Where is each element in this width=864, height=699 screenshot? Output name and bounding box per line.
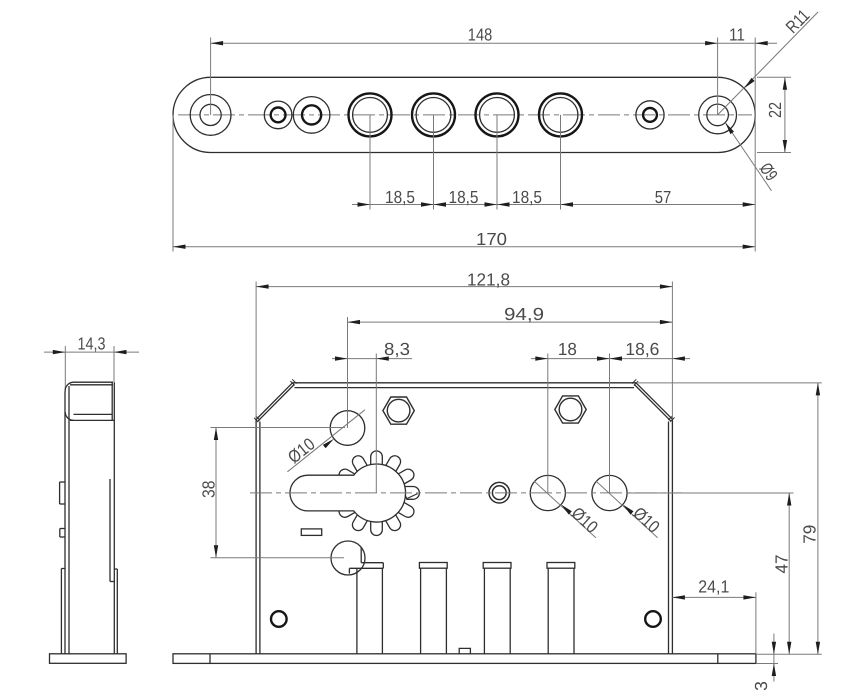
svg-text:18,5: 18,5 — [449, 187, 479, 207]
side view: flange bottom edge lower — [70, 419, 114, 421]
top view: plate outline (stadium 170x22) — [173, 77, 755, 152]
side view: left bump 2 bottom — [60, 536, 65, 538]
dim 22: dimension line — [784, 77, 786, 152]
top view: big hole 1 outer (thick) — [349, 93, 392, 136]
dim 121,8: right extension line — [671, 282, 673, 419]
side view: left tab top connector — [61, 568, 65, 570]
side view: base plate — [50, 654, 127, 664]
top view: big hole 3 inner — [480, 98, 515, 133]
front view: stud 4 cap — [547, 563, 575, 569]
front view: stud 1 cap right — [382, 563, 384, 569]
top view: big hole 4 inner — [543, 98, 578, 133]
dim 148: left arrow — [211, 41, 224, 45]
dim 18,6: right outside arrow — [672, 356, 685, 360]
front view: left chamfer outer — [256, 383, 292, 420]
front view: stud 3 cap — [483, 563, 511, 569]
dim 94,9: dimension line — [348, 321, 673, 323]
front view: horizontal center line — [250, 492, 682, 494]
dim 94,9: left arrow — [348, 320, 361, 324]
dim 18: left outside arrow — [535, 356, 548, 360]
dim 18,5: extension line — [433, 115, 435, 210]
dim 38: bottom extension line — [211, 557, 345, 559]
dim 3: top outside arrow — [772, 642, 776, 655]
dim 14,3: right extension line — [113, 346, 115, 382]
side view: flange bottom-left rounded corner — [65, 412, 73, 420]
dim 47: top arrow — [787, 493, 791, 506]
top view: small hole C inner (thick) — [643, 108, 657, 122]
dim 18,5 arrows at 433.5 right — [421, 202, 434, 206]
svg-text:57: 57 — [655, 187, 672, 207]
dim 24,1: right extension line — [755, 592, 757, 654]
dim 79: top extension line — [638, 382, 822, 384]
dim 38: bottom arrow — [214, 545, 218, 558]
side view: right edge — [113, 421, 115, 654]
side view: flange right edge inner — [111, 382, 113, 420]
top view: big hole 4 outer (thick) — [539, 93, 582, 136]
dim 38: top arrow — [214, 428, 218, 441]
dim 18,5 arrows at 433.5 left — [434, 202, 447, 206]
dim 18,5/57: dimension line — [352, 204, 755, 206]
dim 8,3: extension line (keyhole center) — [375, 354, 377, 493]
front view: right hole 1 Ø10 — [530, 475, 565, 510]
front view: small rectangle cutout — [301, 529, 321, 536]
dim 18: extension line left — [547, 354, 549, 493]
dim 79: bottom extension line — [756, 653, 822, 655]
dim 121,8: right arrow — [660, 284, 673, 288]
front view: stud 4 body left — [547, 568, 549, 654]
side view: flange bottom edge upper — [74, 413, 113, 415]
svg-text:79: 79 — [799, 525, 819, 544]
front view: left chamfer inner — [258, 385, 294, 422]
dim 57 right arrow — [743, 202, 756, 206]
dim 8,3: right outside arrow — [376, 356, 389, 360]
top view: big hole 2 outer (thick) — [412, 93, 455, 136]
dim 22: bottom extension line — [757, 152, 791, 154]
dim 8,3: left outside arrow — [335, 356, 348, 360]
dim 18,5: extension line — [369, 115, 371, 210]
dim 18,5: extension line — [496, 115, 498, 210]
dim 47: dimension line — [788, 493, 790, 654]
dim 170: left extension line — [172, 115, 174, 252]
front view: top edge inner — [295, 387, 635, 389]
dim 3: bottom outside arrow — [772, 664, 776, 677]
front view: small double circle outer — [489, 482, 510, 503]
front view: stud 2 body right — [445, 568, 447, 654]
dim 121,8: left extension line — [255, 282, 257, 420]
front view: mounting hole left — [271, 611, 287, 627]
svg-text:94,9: 94,9 — [504, 304, 544, 324]
dim 57 left arrow — [561, 202, 574, 206]
dim Ø9: arrow at hole edge — [725, 123, 734, 135]
top view: horizontal center line — [178, 114, 752, 116]
front view: bottom-left hole Ø10 — [331, 541, 365, 575]
side view: left inner edge — [68, 386, 70, 654]
front view: right chamfer bend tick top — [634, 381, 638, 385]
front view: hex nut left circle — [387, 399, 410, 422]
dim Ø10 right-2: leader line — [596, 481, 657, 538]
front view: base seam right — [717, 654, 719, 664]
front view: hex nut right outline — [555, 396, 586, 423]
front view: top edge outer — [293, 382, 637, 384]
svg-text:18,5: 18,5 — [512, 187, 542, 207]
svg-text:11: 11 — [729, 25, 745, 45]
svg-text:121,8: 121,8 — [467, 269, 510, 289]
dim 18/18,6: extension line middle — [609, 354, 611, 493]
front view: top-left hole Ø10 — [330, 411, 365, 446]
front view: right hole 2 Ø10 — [592, 475, 627, 510]
front view: left edge outer — [255, 420, 257, 654]
svg-text:24,1: 24,1 — [698, 576, 729, 596]
svg-text:47: 47 — [772, 555, 792, 574]
front view: small notch on base — [459, 648, 470, 653]
top view: big hole 1 inner — [353, 98, 388, 133]
dim 79: dimension line — [817, 383, 819, 654]
dim 18,5 arrows at 370 — [358, 202, 371, 206]
front view: left edge inner — [259, 422, 261, 654]
svg-text:170: 170 — [476, 229, 507, 249]
front view: stud 1 cap bottom — [349, 567, 383, 569]
front view: hex nut right circle — [559, 398, 582, 421]
front view: stud 1 body right — [381, 568, 383, 654]
front view: keyhole tab diagonal — [407, 494, 418, 499]
side view: left bump 1 bottom — [60, 503, 65, 505]
dim 14,3: dimension line — [44, 351, 139, 353]
dim R11: arrow at corner arc — [744, 78, 754, 88]
side view: left bump 1 side — [59, 482, 61, 504]
top view: small hole C outer — [636, 101, 664, 129]
front view: left chamfer bend tick top — [290, 381, 294, 385]
dim 47: bottom arrow — [787, 642, 791, 655]
dim 79: bottom arrow — [816, 642, 820, 655]
front view: stud 1 body left — [356, 568, 358, 654]
dim 148: right arrow — [705, 41, 718, 45]
dim 38: dimension line — [215, 428, 217, 558]
front view: base seam left — [209, 654, 211, 664]
dim 22: top arrow — [783, 77, 787, 90]
side view: left bump 2 side — [59, 529, 61, 538]
side view: flange right edge outer — [113, 382, 115, 420]
dim Ø9: leader line — [725, 123, 771, 191]
dim 18,5 arrows at 497 left — [497, 202, 510, 206]
dim 18/18,6: dimension line — [531, 358, 690, 360]
dim Ø10 right-1: arrow — [561, 505, 572, 515]
dim 121,8: left arrow — [256, 284, 269, 288]
front view: keyhole slot + large circle — [290, 464, 406, 522]
dim 11: right outside arrow — [755, 41, 768, 45]
front view: stud 2 body left — [420, 568, 422, 654]
dim 3: bottom extension line — [756, 663, 778, 665]
svg-text:14,3: 14,3 — [78, 334, 106, 354]
front view: right chamfer inner — [634, 385, 670, 421]
side view: flange top-left rounded corner — [65, 382, 73, 391]
side view: interior stud line horizontal — [110, 581, 114, 583]
svg-text:18: 18 — [558, 339, 577, 359]
dim 14,3: left extension line — [64, 346, 66, 390]
dim 170: left arrow — [173, 245, 186, 249]
dim 24,1: dimension line — [672, 596, 756, 598]
svg-text:18,5: 18,5 — [385, 187, 415, 207]
front view: keyhole right tab — [405, 487, 419, 500]
svg-text:22: 22 — [765, 102, 785, 118]
top view: small hole A inner (thick) — [271, 108, 286, 123]
dim 47: top extension line — [628, 492, 794, 494]
dim 18,5: extension line — [560, 115, 562, 210]
dim 170: dimension line — [173, 246, 755, 248]
dim 22: bottom arrow — [783, 140, 787, 153]
dim 94,9: right arrow — [660, 320, 673, 324]
top view: small hole B inner (thick) — [302, 105, 321, 124]
dim 22: top extension line — [757, 76, 791, 78]
dim Ø10 top-left: leader line — [287, 410, 365, 472]
front view: stud 3 body left — [483, 568, 485, 654]
shared extension line at plate right tangent — [754, 38, 756, 252]
dim 14,3: left outside arrow — [53, 350, 66, 354]
front view: stud 1 interior vertical — [360, 548, 362, 563]
front view: mounting hole right — [645, 611, 661, 627]
svg-text:148: 148 — [468, 25, 492, 45]
dim 18,5 arrows at 497 right — [485, 202, 498, 206]
dim 14,3: right outside arrow — [114, 350, 127, 354]
dim 170: right arrow — [743, 245, 756, 249]
side view: right tab top connector — [114, 568, 117, 570]
front view: base plate — [173, 654, 756, 664]
dim 38: top extension line — [211, 427, 346, 429]
dim R11: leader line — [718, 12, 818, 115]
top view: small hole B outer — [293, 97, 330, 134]
top view: big hole 2 inner — [416, 98, 451, 133]
side view: interior stud line vertical — [109, 479, 111, 582]
dim 24,1: left arrow — [672, 595, 685, 599]
front view: small double circle inner — [492, 486, 506, 500]
svg-text:3: 3 — [751, 681, 771, 691]
front view: stud 4 body right — [573, 568, 575, 654]
top view: right end hole outer — [699, 96, 737, 134]
side view: flange top edge inner — [70, 384, 113, 386]
front view: stud 2 cap — [419, 563, 447, 569]
dim 24,1: right arrow — [743, 595, 756, 599]
side view: right tab outer edge — [116, 569, 118, 654]
dim 8,3: dimension line — [332, 358, 412, 360]
dim Ø10 top-left: arrow — [323, 439, 334, 449]
front view: right edge outer — [671, 419, 673, 654]
dim 79: top arrow — [816, 383, 820, 396]
side view: flange top edge outer — [74, 381, 114, 383]
dim Ø10 right-1: leader line — [534, 481, 596, 538]
front view: right edge inner — [668, 422, 670, 654]
dim 18,6: left outside arrow — [597, 356, 610, 360]
front view: stud 3 body right — [509, 568, 511, 654]
top view: left end hole (inner) — [200, 104, 221, 125]
front view: right chamfer bend tick bottom — [670, 418, 674, 422]
dim 94,9: extension line (hole) — [347, 317, 349, 428]
top view: big hole 3 outer (thick) — [476, 93, 519, 136]
top view: small hole A outer — [264, 101, 292, 129]
dim 3: dimension line — [773, 634, 775, 682]
front view: stud 1 cap top — [361, 562, 383, 564]
dim 121,8: dimension line — [256, 286, 672, 288]
front view: stud 1 cap left stub — [348, 568, 350, 573]
svg-text:38: 38 — [199, 480, 219, 498]
front view: right chamfer outer — [636, 383, 672, 419]
side view: left outer edge — [64, 392, 66, 654]
dim 148: dimension line — [211, 42, 718, 44]
front view: hex nut left outline — [383, 397, 414, 424]
dim 148: extension line left (through hole center) — [210, 38, 212, 115]
svg-text:18,6: 18,6 — [625, 339, 659, 359]
top view: left end hole (outer) — [190, 95, 231, 136]
side view: left bump 2 top — [60, 528, 65, 530]
svg-text:8,3: 8,3 — [384, 339, 410, 359]
dim 18: right outside arrow — [610, 356, 623, 360]
dim 11: dimension line tail — [718, 42, 777, 44]
dim Ø10 right-2: arrow — [623, 505, 634, 515]
side view: left tab outer edge — [60, 569, 62, 654]
top view: right end hole inner — [707, 104, 729, 126]
dim 148: extension line right — [717, 38, 719, 115]
side view: left bump 1 top — [60, 481, 65, 483]
front view: left chamfer bend tick bottom — [254, 418, 258, 422]
